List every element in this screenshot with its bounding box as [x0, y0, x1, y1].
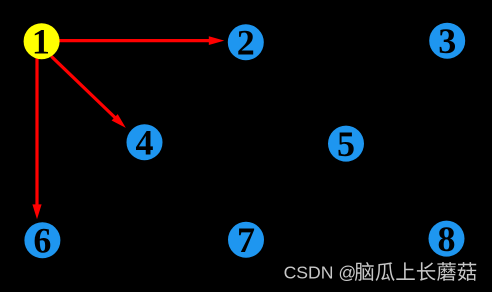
svg-text:1: 1 [32, 22, 50, 62]
node 8 [429, 219, 465, 259]
node 1 [24, 22, 60, 62]
node 7 [228, 220, 264, 260]
watermark chinese glyphs [355, 262, 476, 281]
svg-text:4: 4 [136, 123, 154, 163]
node 3 [429, 21, 465, 61]
edge 1->2 [59, 36, 224, 45]
svg-text:2: 2 [237, 23, 255, 63]
svg-text:8: 8 [438, 219, 456, 259]
node 4 [127, 123, 163, 163]
edge 1->4 [51, 56, 126, 128]
watermark char 菇 [458, 262, 477, 281]
svg-text:5: 5 [337, 124, 355, 164]
edge 1->6 [32, 58, 41, 219]
node 5 [328, 124, 364, 164]
node 6 [24, 221, 60, 261]
svg-text:7: 7 [237, 220, 255, 260]
svg-text:6: 6 [33, 221, 51, 261]
svg-text:CSDN @: CSDN @ [284, 263, 357, 283]
watermark char 上 [396, 262, 415, 280]
watermark char 蘑 [437, 262, 456, 281]
watermark char 瓜 [376, 262, 395, 281]
watermark char 脑 [355, 262, 374, 281]
node 2 [228, 23, 264, 63]
svg-text:3: 3 [438, 21, 456, 61]
watermark char 长 [417, 262, 436, 281]
